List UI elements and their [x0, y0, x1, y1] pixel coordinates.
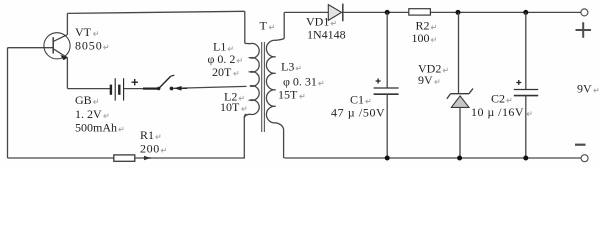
terminal: output - [581, 155, 588, 162]
transistor VT [44, 33, 70, 60]
battery plus mark [132, 79, 138, 85]
node: VD2 bottom junction [457, 156, 462, 161]
switch S [157, 75, 187, 90]
transformer T primary winding L1 [244, 43, 259, 118]
svg-text:1N4148: 1N4148 [307, 28, 346, 42]
wire: bottom rail right segment [284, 157, 581, 159]
wire: switch to transformer tap [172, 86, 247, 88]
node: C1 top junction [385, 10, 390, 15]
node: C2 top junction [523, 10, 528, 15]
node: C2 bottom junction [523, 156, 528, 161]
svg-text:R1: R1 [140, 128, 154, 142]
svg-text:47 µ /50V: 47 µ /50V [331, 106, 385, 120]
capacitor C1 [374, 12, 399, 158]
svg-text:C2: C2 [491, 92, 505, 106]
C2 plus mark [516, 80, 521, 85]
capacitor C2 [514, 12, 538, 158]
wire: emitter to battery [67, 88, 110, 90]
svg-text:VT: VT [75, 25, 92, 39]
arrow on switch wire pointing left [174, 86, 182, 91]
svg-text:8050: 8050 [75, 39, 103, 53]
svg-text:500mAh: 500mAh [75, 121, 117, 135]
wire: bottom rail from R1 to transformer primary bottom [135, 114, 246, 158]
wire: bottom rail left segment to R1 [8, 157, 114, 159]
svg-text:15T: 15T [278, 88, 298, 102]
svg-text:T: T [260, 19, 268, 33]
svg-text:φ 0. 2: φ 0. 2 [208, 52, 236, 66]
resistor R2 [409, 9, 431, 15]
terminal: output + [581, 9, 588, 16]
wire: top rail right [284, 11, 581, 13]
svg-text:100: 100 [412, 31, 430, 45]
transistor VT emitter wire [66, 58, 68, 89]
svg-text:VD1: VD1 [306, 15, 329, 29]
output minus sign [575, 144, 586, 146]
zener diode VD2 [447, 12, 473, 158]
svg-text:9V: 9V [418, 73, 433, 87]
transformer secondary winding L3 [266, 12, 284, 158]
svg-text:10 µ /16V: 10 µ /16V [471, 105, 524, 119]
svg-text:10T: 10T [220, 100, 240, 114]
output plus sign [576, 22, 592, 38]
wire: battery to switch [124, 88, 143, 90]
svg-text:200: 200 [140, 142, 160, 156]
wire: left rail [7, 48, 9, 158]
wire: top-left rail [67, 11, 244, 13]
svg-text:C1: C1 [350, 93, 364, 107]
C1 plus mark [376, 79, 381, 84]
node: VD2 top junction [456, 10, 461, 15]
diode VD1 [328, 4, 343, 22]
svg-text:GB: GB [75, 93, 92, 107]
wire: transformer primary top lead [244, 11, 246, 43]
transistor VT collector wire [66, 13, 68, 34]
transformer core [262, 42, 265, 132]
svg-text:9V: 9V [577, 82, 592, 96]
transformer primary winding L2 [244, 86, 259, 118]
svg-text:20T: 20T [212, 65, 232, 79]
wire: base lead from left rail to transistor base [8, 47, 53, 49]
wire: transformer secondary top lead [283, 12, 285, 38]
battery GB [111, 78, 138, 100]
svg-text:1. 2V: 1. 2V [75, 107, 102, 121]
resistor R1 [114, 155, 135, 161]
node: C1 bottom junction [385, 156, 390, 161]
arrow on bottom wire [144, 157, 151, 159]
svg-text:L3: L3 [281, 60, 294, 74]
svg-text:φ 0. 31: φ 0. 31 [283, 75, 317, 89]
